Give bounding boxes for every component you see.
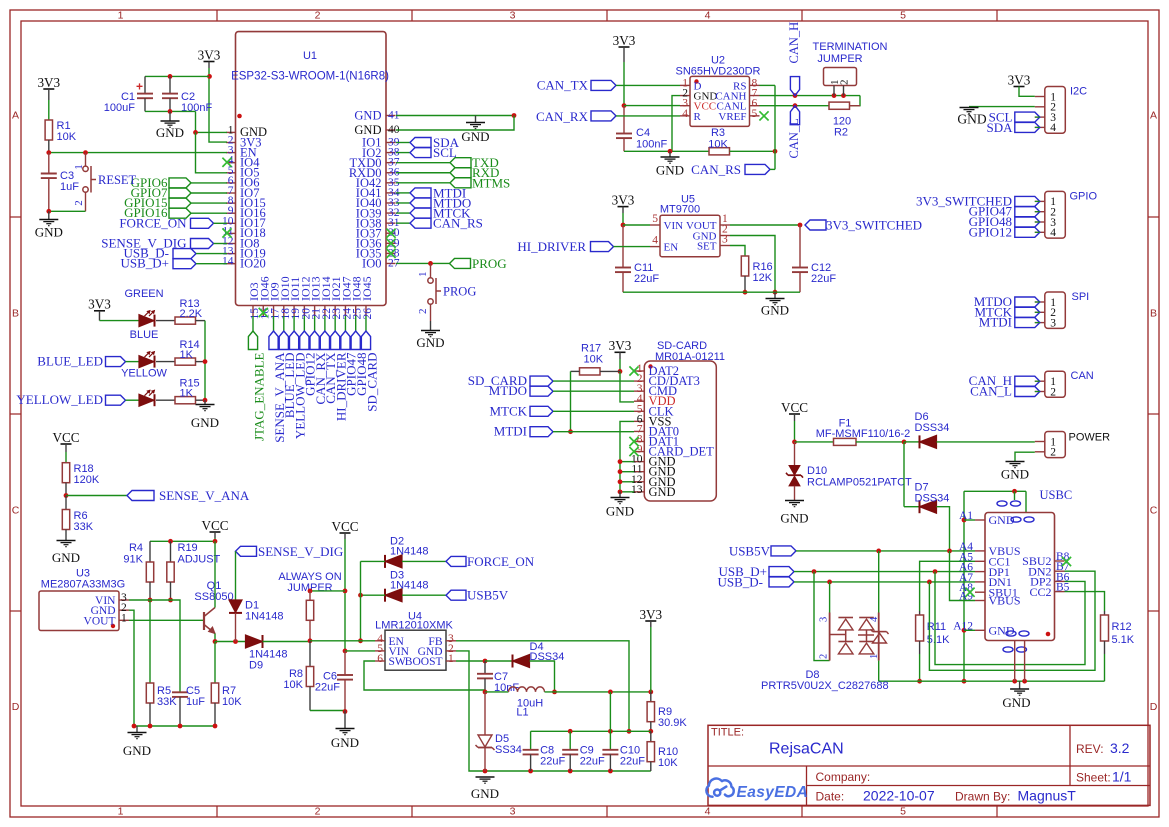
svg-text:100nF: 100nF [181, 102, 212, 114]
svg-text:R19: R19 [178, 542, 198, 554]
svg-text:PROG: PROG [472, 256, 507, 271]
svg-text:D: D [12, 701, 20, 713]
svg-text:D10: D10 [807, 465, 827, 477]
svg-text:1: 1 [73, 164, 85, 170]
svg-text:5.1K: 5.1K [1112, 634, 1135, 646]
svg-text:1: 1 [869, 654, 880, 659]
svg-text:2.2K: 2.2K [180, 308, 203, 320]
svg-text:D9: D9 [249, 660, 263, 672]
svg-text:JTAG_ENABLE: JTAG_ENABLE [251, 352, 266, 441]
svg-text:2: 2 [1050, 386, 1056, 398]
svg-text:5: 5 [900, 10, 906, 22]
svg-text:CAN_TX: CAN_TX [537, 78, 589, 93]
svg-text:ADJUST: ADJUST [178, 554, 221, 566]
svg-text:I2C: I2C [1070, 86, 1087, 98]
svg-text:C4: C4 [636, 127, 650, 139]
svg-text:5.1K: 5.1K [927, 634, 950, 646]
svg-text:YELLOW_LED: YELLOW_LED [16, 392, 103, 407]
svg-text:USBC: USBC [1040, 488, 1073, 502]
svg-text:4: 4 [1050, 227, 1056, 239]
svg-text:IO0: IO0 [362, 257, 381, 271]
svg-text:C: C [12, 505, 20, 517]
svg-text:POWER: POWER [1069, 432, 1111, 444]
svg-text:MF-MSMF110/16-2: MF-MSMF110/16-2 [816, 428, 911, 440]
svg-text:DSS34: DSS34 [915, 493, 950, 505]
svg-text:PRTR5V0U2X_C2827688: PRTR5V0U2X_C2827688 [761, 680, 889, 692]
svg-text:10K: 10K [57, 131, 77, 143]
svg-text:4: 4 [1050, 122, 1056, 134]
svg-text:2: 2 [417, 309, 429, 315]
svg-text:SET: SET [697, 241, 717, 253]
svg-text:12K: 12K [753, 272, 773, 284]
svg-text:C: C [1150, 505, 1158, 517]
svg-text:14: 14 [222, 256, 234, 268]
svg-text:MTDI: MTDI [979, 315, 1012, 330]
svg-text:MT9700: MT9700 [660, 204, 700, 216]
svg-text:SENSE_V_ANA: SENSE_V_ANA [159, 488, 250, 503]
svg-text:5: 5 [900, 806, 906, 818]
svg-text:GND: GND [123, 743, 151, 758]
svg-text:VCC: VCC [52, 430, 79, 445]
svg-text:2: 2 [315, 10, 321, 22]
svg-text:1: 1 [121, 612, 127, 624]
svg-text:GND: GND [35, 225, 63, 240]
svg-text:GND: GND [761, 303, 789, 318]
svg-text:2: 2 [73, 200, 85, 206]
svg-text:1N4148: 1N4148 [390, 546, 429, 558]
svg-text:MTCK: MTCK [489, 403, 527, 418]
svg-text:10K: 10K [658, 757, 678, 769]
svg-text:GND: GND [471, 786, 499, 801]
svg-text:GREEN: GREEN [124, 288, 163, 300]
svg-text:VCC: VCC [201, 518, 228, 533]
svg-text:CAN_RX: CAN_RX [536, 109, 589, 124]
svg-text:GND: GND [461, 129, 489, 144]
svg-text:EN: EN [664, 242, 679, 254]
svg-text:BOOST: BOOST [405, 656, 443, 668]
svg-text:GND: GND [656, 163, 684, 178]
svg-text:IO45: IO45 [360, 276, 374, 301]
svg-text:SPI: SPI [1072, 291, 1090, 303]
svg-text:REV:: REV: [1076, 742, 1104, 756]
svg-text:CAN_L: CAN_L [787, 118, 801, 158]
svg-text:GND: GND [156, 125, 184, 140]
svg-text:IO20: IO20 [240, 257, 266, 271]
svg-text:MagnusT: MagnusT [1018, 788, 1077, 804]
svg-text:ME2807A33M3G: ME2807A33M3G [41, 579, 125, 591]
svg-text:VCC: VCC [781, 400, 808, 415]
svg-text:10K: 10K [584, 354, 604, 366]
svg-text:3V3: 3V3 [88, 297, 111, 312]
svg-text:TITLE:: TITLE: [711, 727, 744, 739]
svg-text:SD_CARD: SD_CARD [364, 353, 379, 412]
svg-text:3V3: 3V3 [612, 192, 635, 207]
svg-text:1uF: 1uF [186, 696, 205, 708]
svg-text:GND: GND [989, 624, 1015, 638]
svg-text:FORCE_ON: FORCE_ON [467, 554, 535, 569]
svg-text:D: D [1150, 701, 1158, 713]
svg-text:6: 6 [377, 653, 383, 665]
svg-text:VREF: VREF [718, 111, 746, 123]
svg-text:GPIO: GPIO [1070, 191, 1098, 203]
svg-text:22uF: 22uF [620, 756, 645, 768]
svg-text:4: 4 [869, 616, 880, 622]
svg-text:R2: R2 [834, 127, 848, 139]
svg-text:GND: GND [1001, 467, 1029, 482]
svg-text:CAN_RS: CAN_RS [433, 216, 483, 231]
svg-text:22uF: 22uF [811, 273, 836, 285]
svg-text:30.9K: 30.9K [658, 717, 687, 729]
svg-text:DSS34: DSS34 [915, 422, 950, 434]
svg-text:GND: GND [780, 511, 808, 526]
svg-text:22uF: 22uF [634, 273, 659, 285]
svg-text:2: 2 [839, 80, 851, 86]
svg-text:ESP32-S3-WROOM-1(N16R8): ESP32-S3-WROOM-1(N16R8) [231, 71, 389, 83]
svg-text:MTDI: MTDI [494, 424, 527, 439]
svg-text:GND: GND [191, 415, 219, 430]
svg-text:B: B [1150, 308, 1157, 320]
svg-text:22uF: 22uF [315, 682, 340, 694]
svg-text:Drawn By:: Drawn By: [955, 790, 1010, 804]
svg-text:1uF: 1uF [60, 181, 79, 193]
svg-text:B: B [12, 308, 19, 320]
svg-text:BLUE_LED: BLUE_LED [37, 354, 103, 369]
svg-text:22uF: 22uF [540, 756, 565, 768]
svg-text:1: 1 [417, 272, 429, 278]
svg-text:JUMPER: JUMPER [817, 53, 862, 65]
svg-text:2: 2 [819, 654, 830, 659]
svg-text:3V3_SWITCHED: 3V3_SWITCHED [826, 218, 922, 233]
svg-text:VBUS: VBUS [989, 594, 1021, 608]
svg-text:3V3: 3V3 [613, 33, 636, 48]
svg-text:SS8050: SS8050 [194, 591, 233, 603]
svg-text:100uF: 100uF [104, 102, 135, 114]
svg-text:13: 13 [631, 484, 643, 496]
svg-text:GPIO12: GPIO12 [969, 224, 1012, 239]
svg-text:GND: GND [606, 504, 634, 519]
svg-text:SW: SW [389, 656, 406, 668]
svg-text:USB5V: USB5V [729, 543, 771, 558]
svg-text:4: 4 [682, 108, 688, 120]
svg-text:R12: R12 [1112, 621, 1132, 633]
svg-text:L1: L1 [516, 707, 528, 719]
svg-text:91K: 91K [123, 554, 143, 566]
svg-text:YELLOW: YELLOW [121, 368, 167, 380]
svg-text:R4: R4 [129, 542, 143, 554]
svg-text:3: 3 [1050, 317, 1056, 329]
svg-text:3: 3 [722, 234, 728, 246]
svg-text:4: 4 [705, 806, 711, 818]
svg-text:A: A [12, 110, 19, 122]
svg-text:VOUT: VOUT [84, 615, 116, 627]
svg-text:MR01A-01211: MR01A-01211 [655, 351, 725, 363]
svg-text:4: 4 [652, 235, 658, 247]
svg-text:RCLAMP0521PATCT: RCLAMP0521PATCT [807, 477, 912, 489]
svg-text:CAN_H: CAN_H [787, 22, 801, 64]
svg-text:SCL: SCL [433, 145, 457, 160]
svg-text:GND: GND [957, 112, 986, 127]
svg-text:3: 3 [510, 10, 516, 22]
svg-text:33K: 33K [157, 696, 177, 708]
svg-text:FORCE_ON: FORCE_ON [119, 215, 187, 230]
svg-text:26: 26 [362, 308, 374, 320]
svg-text:3V3: 3V3 [609, 338, 632, 353]
svg-text:1: 1 [448, 653, 454, 665]
svg-text:1: 1 [118, 10, 124, 22]
svg-text:Sheet:: Sheet: [1076, 771, 1111, 785]
svg-text:2022-10-07: 2022-10-07 [863, 788, 935, 804]
svg-text:Date:: Date: [816, 790, 845, 804]
svg-text:1K: 1K [180, 349, 194, 361]
svg-text:MTDO: MTDO [489, 383, 527, 398]
svg-text:100nF: 100nF [636, 139, 667, 151]
svg-text:R3: R3 [711, 127, 725, 139]
svg-text:SN65HVD230DR: SN65HVD230DR [676, 66, 761, 78]
svg-text:1: 1 [118, 806, 124, 818]
svg-text:10K: 10K [222, 696, 242, 708]
svg-text:CAN: CAN [1071, 370, 1094, 382]
svg-text:CC2: CC2 [1029, 585, 1051, 599]
svg-text:3.2: 3.2 [1110, 740, 1130, 756]
svg-text:10K: 10K [708, 139, 728, 151]
svg-text:VCC: VCC [331, 519, 358, 534]
svg-text:3V3: 3V3 [198, 47, 221, 62]
svg-text:120K: 120K [74, 474, 100, 486]
svg-text:GND: GND [354, 109, 381, 123]
svg-text:3V3: 3V3 [1008, 72, 1031, 87]
svg-text:1N4148: 1N4148 [390, 580, 429, 592]
svg-text:TERMINATION: TERMINATION [813, 41, 888, 53]
svg-text:3: 3 [510, 806, 516, 818]
svg-text:USB_D+: USB_D+ [120, 256, 169, 271]
svg-text:5: 5 [652, 213, 658, 225]
svg-text:LMR12010XMK: LMR12010XMK [375, 620, 453, 632]
svg-text:GND: GND [52, 550, 80, 565]
svg-text:R: R [694, 111, 702, 123]
svg-text:2: 2 [315, 806, 321, 818]
svg-text:GND: GND [416, 335, 444, 350]
svg-text:GND: GND [989, 513, 1015, 527]
svg-text:GND: GND [331, 735, 359, 750]
svg-text:+: + [136, 80, 143, 94]
svg-text:A: A [1150, 110, 1157, 122]
svg-text:3V3: 3V3 [639, 607, 662, 622]
svg-text:RejsaCAN: RejsaCAN [769, 741, 844, 758]
svg-text:SDA: SDA [986, 120, 1013, 135]
svg-text:GND: GND [649, 485, 676, 499]
svg-text:3: 3 [819, 617, 830, 622]
svg-text:CAN_L: CAN_L [970, 384, 1012, 399]
svg-text:GND: GND [1002, 695, 1030, 710]
svg-text:Company:: Company: [816, 770, 871, 784]
svg-text:1/1: 1/1 [1112, 769, 1132, 785]
svg-text:EasyEDA: EasyEDA [737, 784, 809, 801]
svg-text:RESET: RESET [98, 173, 137, 187]
svg-text:3V3: 3V3 [37, 75, 60, 90]
svg-text:22uF: 22uF [580, 756, 605, 768]
svg-text:MTMS: MTMS [472, 175, 510, 190]
svg-text:10K: 10K [283, 679, 303, 691]
svg-text:1N4148: 1N4148 [245, 611, 284, 623]
svg-text:USB_D-: USB_D- [717, 574, 763, 589]
svg-text:2: 2 [1050, 447, 1056, 459]
svg-text:33K: 33K [74, 521, 94, 533]
svg-text:U1: U1 [303, 50, 317, 62]
svg-text:USB5V: USB5V [467, 588, 509, 603]
svg-text:1K: 1K [180, 388, 194, 400]
svg-text:BLUE: BLUE [130, 329, 159, 341]
svg-text:5: 5 [752, 108, 758, 120]
svg-text:HI_DRIVER: HI_DRIVER [517, 239, 586, 254]
svg-text:VIN: VIN [664, 220, 684, 232]
svg-text:CAN_RS: CAN_RS [691, 162, 741, 177]
svg-text:SS34: SS34 [495, 744, 522, 756]
svg-text:4: 4 [705, 10, 711, 22]
svg-text:PROG: PROG [443, 285, 476, 299]
svg-text:SENSE_V_DIG: SENSE_V_DIG [258, 544, 343, 559]
